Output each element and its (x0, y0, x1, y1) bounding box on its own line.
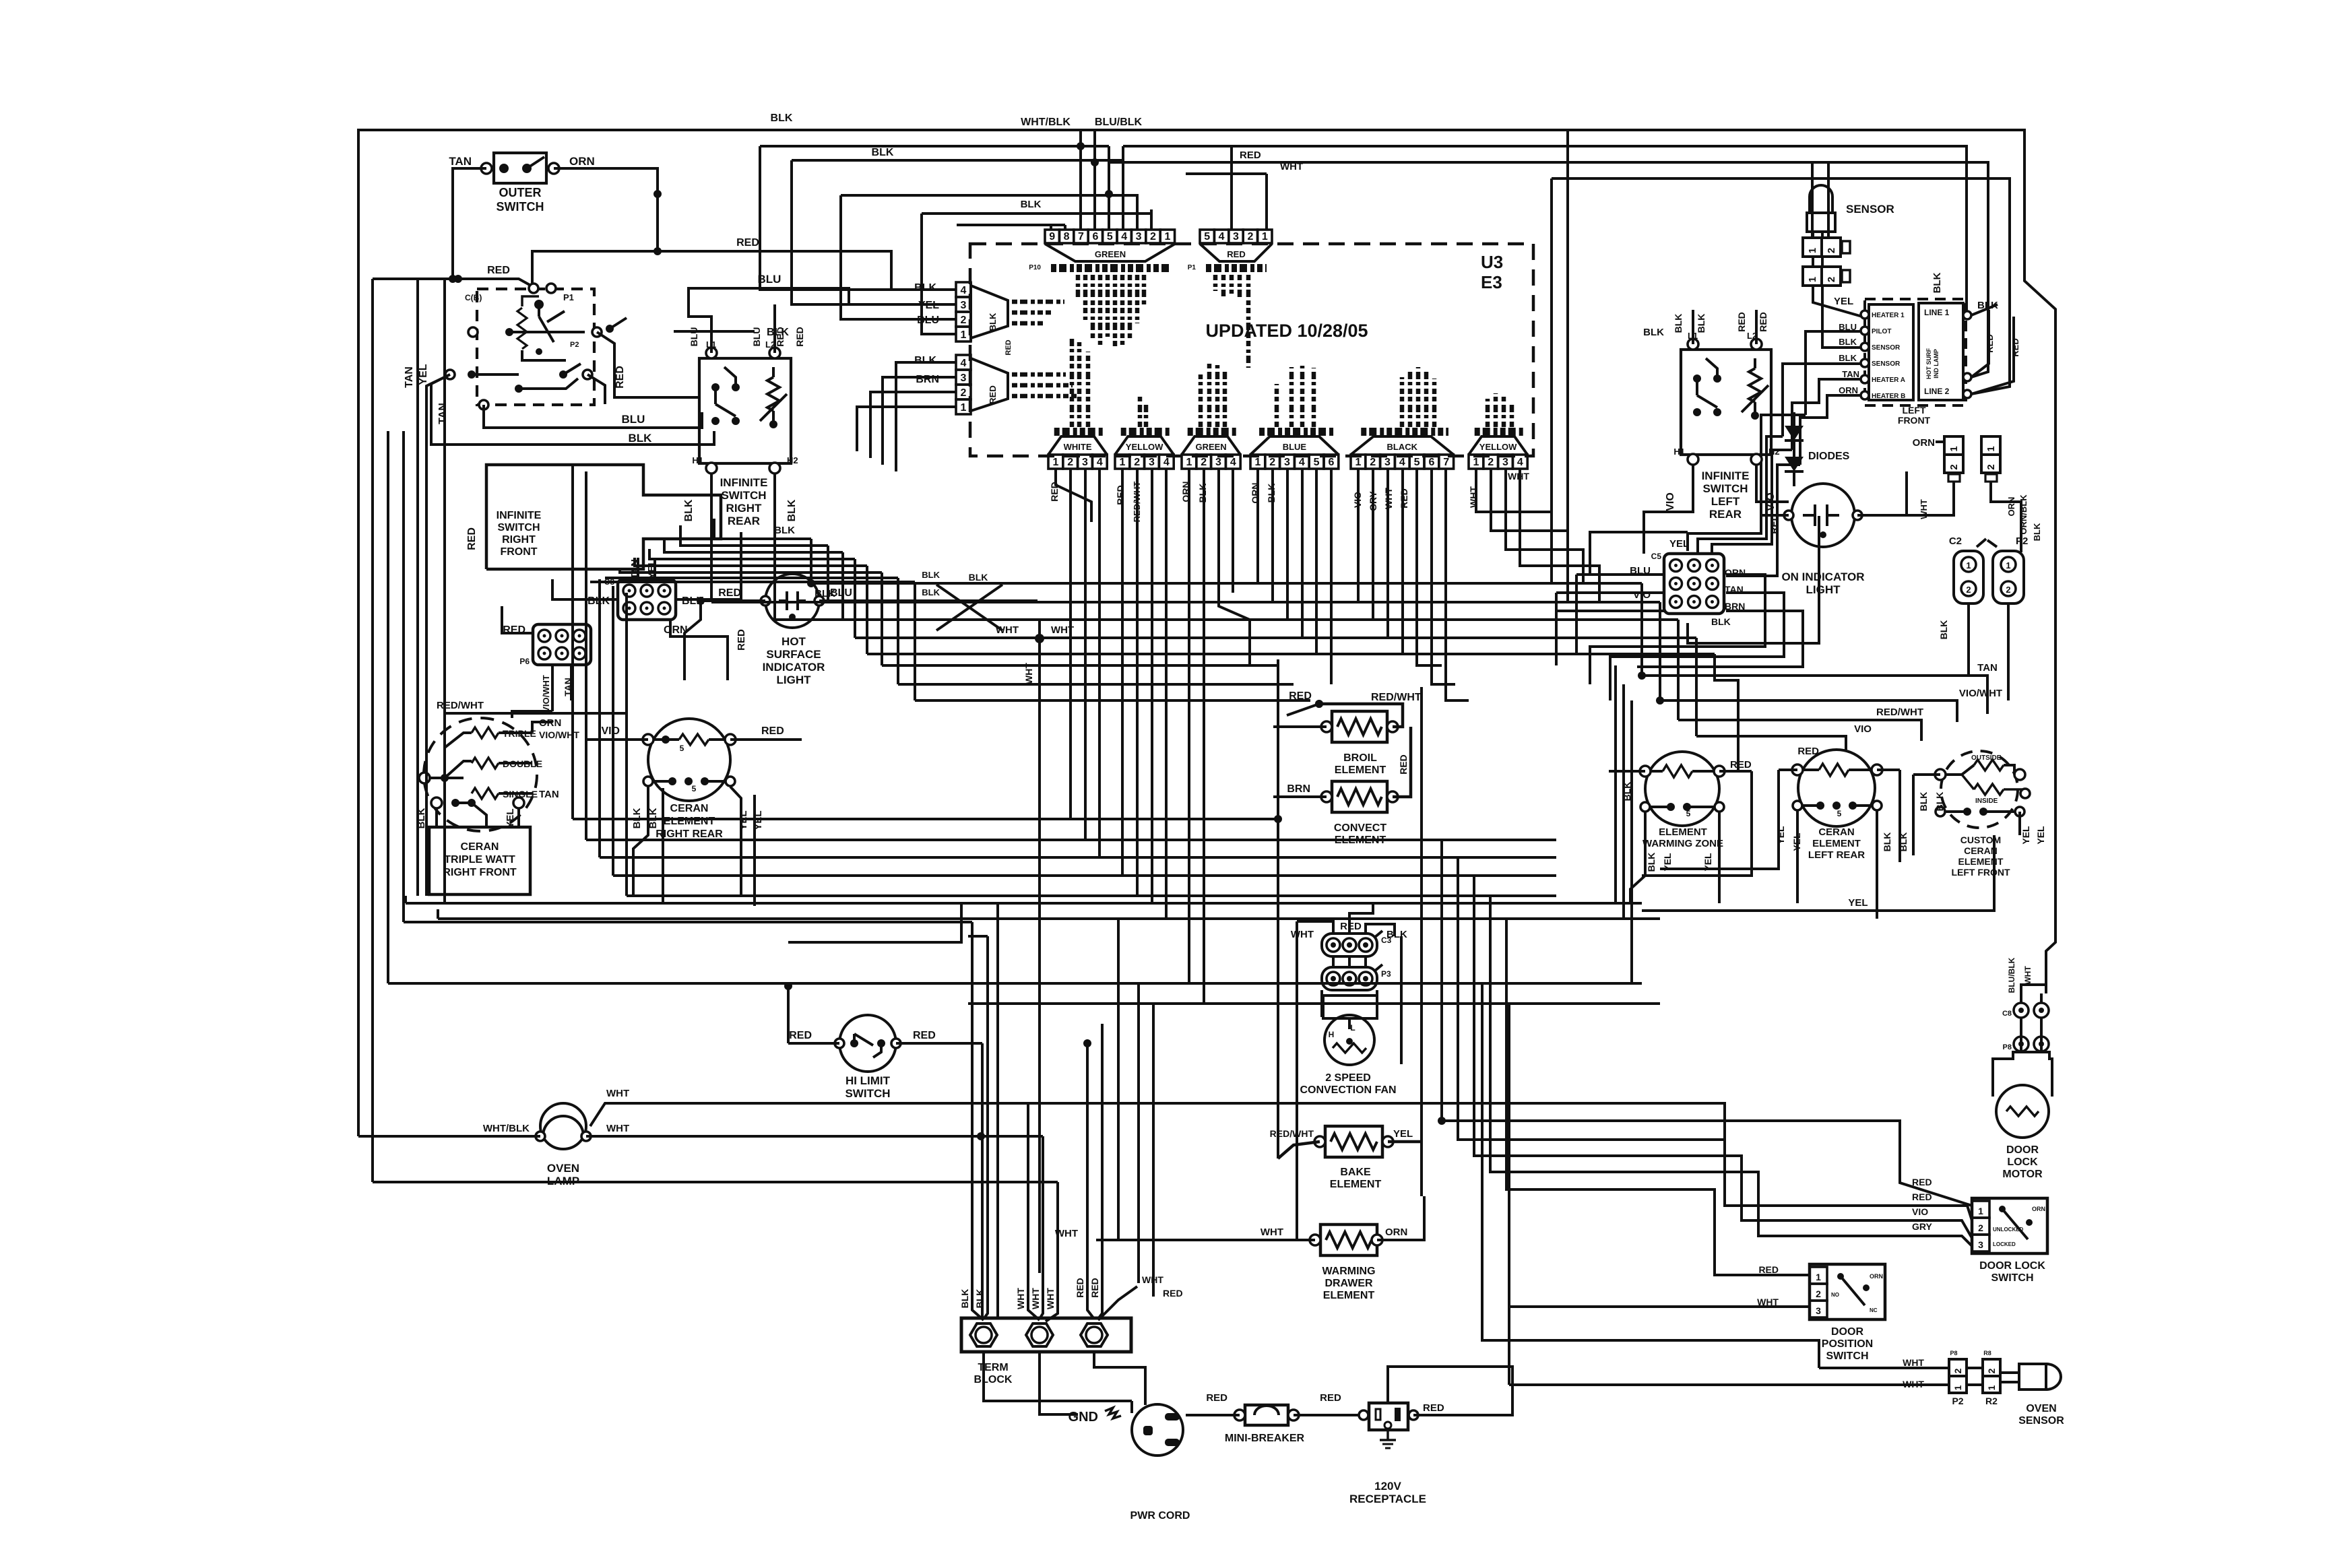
wire (605, 577, 898, 579)
wire (1575, 575, 1578, 654)
wire (1386, 469, 1389, 638)
wire: outer border loop (358, 130, 2055, 1136)
svg-text:1: 1 (961, 329, 967, 341)
wire (684, 601, 701, 680)
svg-text:BLK: BLK (914, 282, 936, 294)
wire (1688, 415, 1806, 551)
svg-text:TAN: TAN (1842, 369, 1859, 379)
svg-text:ORN: ORN (1839, 385, 1858, 395)
svg-text:SENSOR: SENSOR (1872, 360, 1901, 368)
wire (1056, 1182, 1059, 1273)
wire (1590, 532, 1688, 575)
wire (402, 431, 405, 922)
svg-text:RED: RED (1115, 485, 1126, 505)
wire (689, 288, 849, 304)
svg-text:BLK: BLK (2032, 523, 2042, 541)
pin-name strokes YELLOW J2 (1138, 396, 1143, 427)
svg-text:YEL: YEL (2035, 826, 2046, 845)
wire (1803, 769, 1819, 771)
wire (1136, 194, 1139, 230)
resistor DOUBLE (472, 758, 499, 769)
svg-text:GREEN: GREEN (1195, 442, 1226, 452)
svg-text:1: 1 (2006, 560, 2010, 570)
wire (1278, 1142, 1320, 1158)
wire (2000, 1381, 2019, 1383)
wire (1050, 225, 1052, 230)
svg-text:TAN: TAN (404, 366, 415, 388)
svg-text:BLK: BLK (1934, 792, 1945, 812)
svg-text:DRAWER: DRAWER (1325, 1278, 1373, 1289)
wire (775, 618, 1678, 621)
tiny pin text (1012, 372, 1066, 377)
svg-text:2: 2 (1201, 457, 1207, 468)
svg-text:RED: RED (1912, 1177, 1932, 1187)
svg-text:P2: P2 (2016, 535, 2028, 547)
wire (373, 1181, 1058, 1183)
svg-text:TAN: TAN (1977, 662, 1998, 674)
svg-text:RED: RED (1985, 334, 1995, 352)
wire (1046, 1273, 1058, 1321)
wire (1877, 769, 1900, 771)
svg-text:1: 1 (961, 402, 967, 414)
svg-text:HEATER 1: HEATER 1 (1872, 312, 1905, 319)
svg-text:RED/WHT: RED/WHT (1270, 1128, 1314, 1139)
svg-text:4: 4 (1121, 231, 1127, 242)
svg-text:YEL: YEL (418, 364, 429, 385)
wire (968, 935, 988, 938)
wire (1319, 704, 1403, 727)
svg-text:ELEMENT: ELEMENT (1958, 856, 2004, 867)
wire (649, 549, 855, 559)
wire (1042, 1136, 1044, 1273)
wire (1660, 770, 1779, 869)
module: surface element block LEFT FRONT (dashed) (1865, 299, 1966, 405)
wire (1706, 358, 1717, 379)
wire (1644, 465, 1693, 554)
wire (1151, 469, 1153, 903)
wire (1779, 769, 1797, 771)
wire (1490, 896, 1972, 1246)
wire (1876, 811, 1878, 876)
wire (552, 579, 593, 599)
wire (1108, 146, 1110, 230)
svg-text:5: 5 (1204, 231, 1210, 242)
wire (387, 431, 389, 983)
svg-text:BLK: BLK (815, 588, 835, 599)
wire (1642, 676, 1987, 714)
svg-text:BLK: BLK (1643, 327, 1664, 338)
svg-text:POSITION: POSITION (1822, 1338, 1873, 1350)
outlet: 120V RECEPTACLE (1369, 1403, 1408, 1430)
svg-text:REAR: REAR (1709, 508, 1742, 521)
wire (1853, 804, 1877, 807)
svg-text:5: 5 (1314, 457, 1320, 468)
svg-text:RED: RED (1768, 514, 1779, 534)
svg-text:6: 6 (1092, 231, 1098, 242)
svg-text:9: 9 (1049, 231, 1055, 242)
svg-text:ORN: ORN (2032, 1206, 2045, 1212)
svg-text:2: 2 (1134, 457, 1140, 468)
wire (1374, 931, 1382, 938)
svg-text:INFINITE: INFINITE (720, 476, 768, 489)
wire (539, 317, 554, 342)
wire (1474, 876, 1972, 1238)
svg-text:YEL: YEL (1834, 296, 1853, 307)
svg-text:CERAN: CERAN (1818, 826, 1854, 838)
wire (1760, 514, 1789, 517)
svg-text:2: 2 (1488, 457, 1494, 468)
wire (585, 471, 587, 840)
svg-text:WHT: WHT (1051, 624, 1074, 636)
wire (1188, 469, 1190, 983)
svg-text:1: 1 (1355, 457, 1361, 468)
svg-text:E3: E3 (1481, 272, 1502, 292)
svg-text:LOCK: LOCK (2007, 1156, 2038, 1168)
svg-text:RED: RED (487, 265, 510, 276)
svg-text:LIGHT: LIGHT (777, 674, 812, 686)
wire (1792, 379, 1861, 450)
wire (1991, 482, 2021, 552)
wire (1556, 591, 1664, 594)
wire (610, 318, 627, 329)
svg-text:REAR: REAR (728, 515, 760, 527)
wire (1442, 840, 1972, 1206)
wire (1374, 965, 1382, 971)
svg-text:WHT: WHT (606, 1123, 629, 1134)
wire (1797, 804, 1820, 807)
wire (620, 569, 882, 573)
connector R2 oven sensor (1983, 1359, 2000, 1376)
svg-text:R2: R2 (1985, 1396, 1998, 1406)
svg-text:P2: P2 (570, 341, 579, 349)
wire (855, 636, 1696, 639)
wire (1273, 795, 1327, 798)
svg-text:YEL: YEL (1393, 1128, 1413, 1140)
wire (1417, 469, 1442, 665)
wire (897, 578, 899, 684)
wire (670, 618, 701, 636)
svg-text:RED: RED (2010, 338, 2020, 356)
wire (455, 802, 472, 804)
svg-text:SWITCH: SWITCH (721, 489, 766, 502)
wire (760, 394, 787, 421)
wire (2040, 993, 2043, 1003)
svg-text:ORN: ORN (1385, 1227, 1407, 1238)
wire (788, 1042, 839, 1045)
wire (2000, 1371, 2019, 1374)
wire (882, 664, 1278, 667)
wire (1715, 654, 1752, 771)
svg-text:3: 3 (961, 372, 967, 384)
wire (1386, 1429, 1389, 1440)
wire (792, 160, 956, 304)
wire (996, 903, 999, 1318)
svg-text:RED: RED (1340, 921, 1362, 932)
svg-text:BLUE: BLUE (1283, 442, 1307, 452)
svg-text:NO: NO (1831, 1292, 1839, 1298)
wire (1165, 469, 1168, 919)
svg-text:WHT: WHT (2023, 966, 2033, 985)
wire (1401, 469, 1404, 654)
wire (1756, 465, 1789, 502)
wire (445, 761, 472, 778)
wire (406, 902, 1642, 905)
svg-text:3: 3 (1215, 457, 1221, 468)
wire (404, 896, 407, 903)
svg-text:WHT: WHT (1903, 1357, 1924, 1368)
wire (1286, 469, 1289, 620)
wire (586, 839, 1556, 841)
wire (522, 350, 566, 360)
wire (1294, 1414, 1364, 1416)
svg-text:ON INDICATOR: ON INDICATOR (1781, 570, 1864, 583)
svg-text:SENSOR: SENSOR (1872, 344, 1901, 352)
wire (1622, 684, 1625, 919)
wire (1576, 573, 1664, 576)
svg-text:BLU: BLU (689, 327, 699, 347)
wire (1812, 257, 1814, 267)
svg-text:LEFT FRONT: LEFT FRONT (1951, 867, 2010, 878)
wire (635, 558, 867, 566)
wire (957, 224, 1065, 226)
svg-text:6: 6 (1428, 457, 1434, 468)
svg-text:RED/WHT: RED/WHT (1876, 707, 1923, 718)
wire (1857, 471, 1907, 515)
svg-text:2: 2 (1948, 464, 1960, 469)
svg-text:5: 5 (1837, 809, 1842, 818)
wire (1940, 810, 1967, 813)
wire (1755, 310, 1758, 344)
wire (590, 1103, 1725, 1140)
svg-text:BLK: BLK (914, 355, 936, 366)
connector P3 (fan) (1322, 967, 1377, 990)
wire (501, 606, 503, 620)
wire (1696, 736, 1846, 750)
wire (416, 431, 419, 896)
connector P6 (533, 624, 591, 665)
wire (701, 599, 765, 602)
switch: INFINITE SWITCH RIGHT REAR (699, 358, 791, 463)
svg-text:BLK: BLK (1021, 199, 1042, 210)
svg-text:3: 3 (1978, 1239, 1983, 1250)
svg-text:BLACK: BLACK (1387, 442, 1418, 452)
wire (1096, 1239, 1315, 1241)
wire (612, 586, 614, 876)
wire (1150, 209, 1153, 230)
terminal block: TERM BLOCK (961, 1318, 1131, 1352)
wire (435, 808, 438, 827)
wire (1630, 812, 1645, 903)
svg-text:3: 3 (1816, 1305, 1821, 1316)
wire (676, 598, 701, 601)
wire (1806, 331, 1861, 415)
wire (854, 1034, 873, 1045)
svg-text:3: 3 (1284, 457, 1290, 468)
svg-text:BLK: BLK (629, 432, 653, 445)
svg-text:BRN: BRN (916, 374, 939, 385)
wire (519, 379, 578, 389)
wire (486, 465, 721, 569)
svg-text:RED: RED (736, 237, 759, 249)
wire (1793, 412, 1795, 426)
wire (1803, 514, 1815, 517)
svg-text:3: 3 (1384, 457, 1391, 468)
svg-text:RED: RED (1227, 249, 1245, 259)
wire (1296, 1054, 1298, 1240)
wire (786, 591, 788, 610)
svg-text:2: 2 (1370, 457, 1376, 468)
wire (1827, 514, 1839, 517)
svg-text:RED/WHT: RED/WHT (1371, 692, 1422, 703)
wire (1040, 1273, 1043, 1319)
connector 4-pin upper-left of board (956, 282, 971, 297)
svg-text:C2: C2 (1949, 535, 1962, 547)
svg-text:SENSOR: SENSOR (2018, 1415, 2064, 1427)
wire (1660, 700, 1957, 722)
wire (1056, 469, 1091, 522)
svg-text:BLK: BLK (771, 112, 793, 124)
wire (1640, 1102, 1643, 1105)
wire (1913, 773, 1940, 776)
wire (1232, 469, 1234, 593)
svg-text:1: 1 (1807, 248, 1818, 253)
svg-text:2: 2 (961, 315, 967, 326)
svg-text:SWITCH: SWITCH (497, 522, 540, 533)
svg-text:5: 5 (692, 784, 697, 793)
svg-text:1: 1 (1119, 457, 1125, 468)
svg-text:WHITE: WHITE (1064, 442, 1092, 452)
wire (538, 304, 540, 317)
wire (915, 699, 1310, 702)
svg-text:RED: RED (1320, 1392, 1341, 1404)
svg-text:2: 2 (1269, 457, 1275, 468)
svg-text:C5: C5 (1651, 552, 1662, 561)
switch: HI LIMIT SWITCH (839, 1015, 896, 1072)
wire (1796, 811, 1799, 869)
wire (1754, 402, 1756, 416)
wire (512, 711, 552, 718)
svg-text:IND LAMP: IND LAMP (1933, 349, 1940, 379)
svg-text:BLK: BLK (872, 147, 894, 158)
wire (1550, 471, 1553, 583)
svg-text:ELEMENT: ELEMENT (1335, 764, 1386, 776)
wire (779, 599, 787, 602)
svg-text:BLU/BLK: BLU/BLK (2007, 957, 2016, 993)
svg-text:SWITCH: SWITCH (497, 200, 544, 214)
wire (648, 780, 672, 783)
wire (819, 599, 1038, 602)
wire (2002, 1209, 2028, 1239)
wire (1899, 770, 1901, 862)
svg-text:VIO: VIO (1665, 492, 1676, 511)
wire (1552, 178, 2010, 394)
svg-text:VIO/WHT: VIO/WHT (541, 675, 551, 713)
svg-text:4: 4 (1219, 231, 1225, 242)
wire (554, 168, 658, 251)
svg-text:LINE 1: LINE 1 (1924, 308, 1950, 317)
wire (1849, 769, 1872, 771)
svg-text:MINI-BREAKER: MINI-BREAKER (1225, 1433, 1305, 1444)
wire (499, 792, 532, 795)
wire (936, 585, 1002, 630)
svg-text:ELEMENT: ELEMENT (1812, 838, 1861, 849)
svg-text:H1: H1 (1673, 447, 1685, 457)
connector GREEN J3 (1182, 455, 1197, 469)
terminals bottom ceran triple (431, 797, 442, 808)
svg-text:BLK: BLK (1696, 314, 1706, 333)
wire (2018, 812, 2021, 835)
svg-text:LEFT REAR: LEFT REAR (1808, 849, 1865, 861)
wire (1726, 465, 1800, 576)
wire (1520, 469, 1599, 602)
wire (1688, 516, 1819, 643)
svg-text:1: 1 (1978, 1206, 1983, 1216)
svg-text:P1: P1 (1188, 264, 1197, 271)
wire (1800, 395, 1861, 465)
svg-text:HOT SURF: HOT SURF (1925, 348, 1932, 380)
svg-text:RED: RED (1004, 339, 1013, 355)
svg-text:3: 3 (1233, 231, 1239, 242)
svg-text:PILOT: PILOT (1872, 328, 1891, 335)
svg-text:DOOR: DOOR (2006, 1144, 2039, 1156)
svg-text:4: 4 (1399, 457, 1405, 468)
svg-text:2: 2 (1985, 464, 1997, 469)
svg-text:6: 6 (1328, 457, 1334, 468)
svg-text:5: 5 (1686, 809, 1691, 818)
svg-text:BLK: BLK (1932, 272, 1943, 293)
wire (841, 195, 956, 319)
switch: selector (dashed) P1 (477, 289, 594, 405)
wire (981, 1043, 984, 1318)
svg-text:GREEN: GREEN (1095, 249, 1126, 259)
wire (1098, 1286, 1137, 1320)
wire (445, 677, 627, 748)
wire (1349, 903, 1373, 934)
wire (1686, 532, 1689, 551)
connector BLACK J5 (1351, 455, 1366, 469)
connector BLUE J4 (1250, 455, 1265, 469)
svg-text:2: 2 (1978, 1222, 1983, 1233)
wire (870, 392, 956, 458)
wire (416, 279, 419, 431)
svg-text:WHT/BLK: WHT/BLK (483, 1123, 530, 1134)
wire (613, 874, 1556, 877)
svg-text:3: 3 (1149, 457, 1155, 468)
resistor TRIPLE (472, 727, 499, 738)
wire (772, 367, 775, 377)
wire (590, 581, 915, 583)
wire (1819, 1367, 1949, 1369)
inner box lines (1919, 303, 1963, 400)
wire (701, 532, 741, 599)
wire (532, 251, 891, 290)
wire (730, 738, 802, 741)
wire (472, 803, 486, 827)
wire (1506, 919, 1810, 1275)
wire (1098, 1264, 1102, 1319)
wire (1783, 364, 1861, 436)
wire (1651, 770, 1663, 773)
wire (1400, 936, 1403, 1051)
wire (1482, 983, 1819, 1368)
wire (527, 157, 544, 168)
wire (1742, 385, 1768, 412)
svg-text:L: L (1350, 1023, 1355, 1033)
wire (1718, 812, 1721, 876)
wire (2020, 1018, 2022, 1051)
svg-text:CONVECTION FAN: CONVECTION FAN (1300, 1084, 1396, 1096)
wire (1273, 725, 1327, 728)
